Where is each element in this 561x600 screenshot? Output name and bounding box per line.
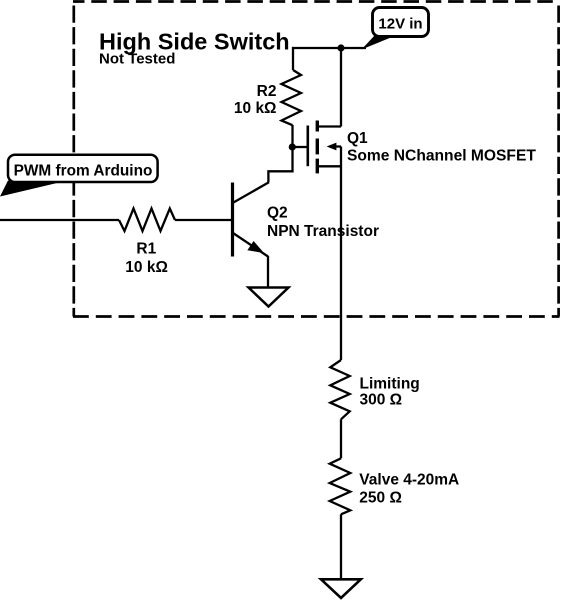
svg-text:Some NChannel MOSFET: Some NChannel MOSFET <box>347 148 536 165</box>
svg-text:10 kΩ: 10 kΩ <box>234 100 277 117</box>
svg-text:Limiting: Limiting <box>360 375 420 392</box>
wire: gate node down-left to Q2 collector <box>268 147 292 182</box>
wire: Q1 source down to Limiting resistor <box>340 147 342 361</box>
resistor R1 <box>119 209 175 232</box>
svg-text:300 Ω: 300 Ω <box>360 392 403 409</box>
svg-text:12V in: 12V in <box>378 16 422 33</box>
junction: 12V node dot <box>337 44 344 51</box>
svg-text:Not Tested: Not Tested <box>99 51 175 68</box>
svg-text:10 kΩ: 10 kΩ <box>125 259 168 276</box>
wire: gate node to Q1 gate <box>292 146 307 148</box>
resistor Valve <box>330 458 351 514</box>
wire: R1 to Q2 base <box>175 219 231 221</box>
transistor Q2 (NPN) <box>233 182 269 256</box>
wire: 12V rail (top horizontal) <box>292 47 366 49</box>
svg-text:R2: R2 <box>257 83 277 100</box>
callout: 12V in <box>362 8 429 50</box>
resistor Limiting <box>330 360 349 419</box>
svg-text:Q1: Q1 <box>347 130 368 147</box>
svg-text:Q2: Q2 <box>267 205 288 222</box>
svg-text:250 Ω: 250 Ω <box>359 489 402 506</box>
enclosure: High Side Switch dashed boundary box <box>73 2 560 317</box>
wire: Limiting to Valve <box>340 419 342 458</box>
wire: Q1 drain to 12V rail <box>340 48 342 127</box>
wire: PWM input to R1 <box>0 219 119 221</box>
wire: R2 bottom to gate node <box>291 125 293 147</box>
wire: Q2 emitter to ground <box>267 256 269 288</box>
transistor Q1 (N-channel MOSFET) <box>308 121 341 174</box>
svg-text:NPN Transistor: NPN Transistor <box>267 223 379 240</box>
svg-text:PWM from Arduino: PWM from Arduino <box>14 163 153 180</box>
svg-text:R1: R1 <box>136 241 156 258</box>
wire: rail to R2 top <box>292 47 294 70</box>
ground (Q2 emitter) <box>249 288 289 307</box>
ground (output return) <box>321 579 361 598</box>
junction: gate node dot <box>289 143 296 150</box>
resistor R2 <box>282 70 302 125</box>
wire: Valve to output ground <box>340 514 342 579</box>
svg-text:Valve 4-20mA: Valve 4-20mA <box>359 472 459 489</box>
callout: PWM from Arduino <box>0 155 158 197</box>
